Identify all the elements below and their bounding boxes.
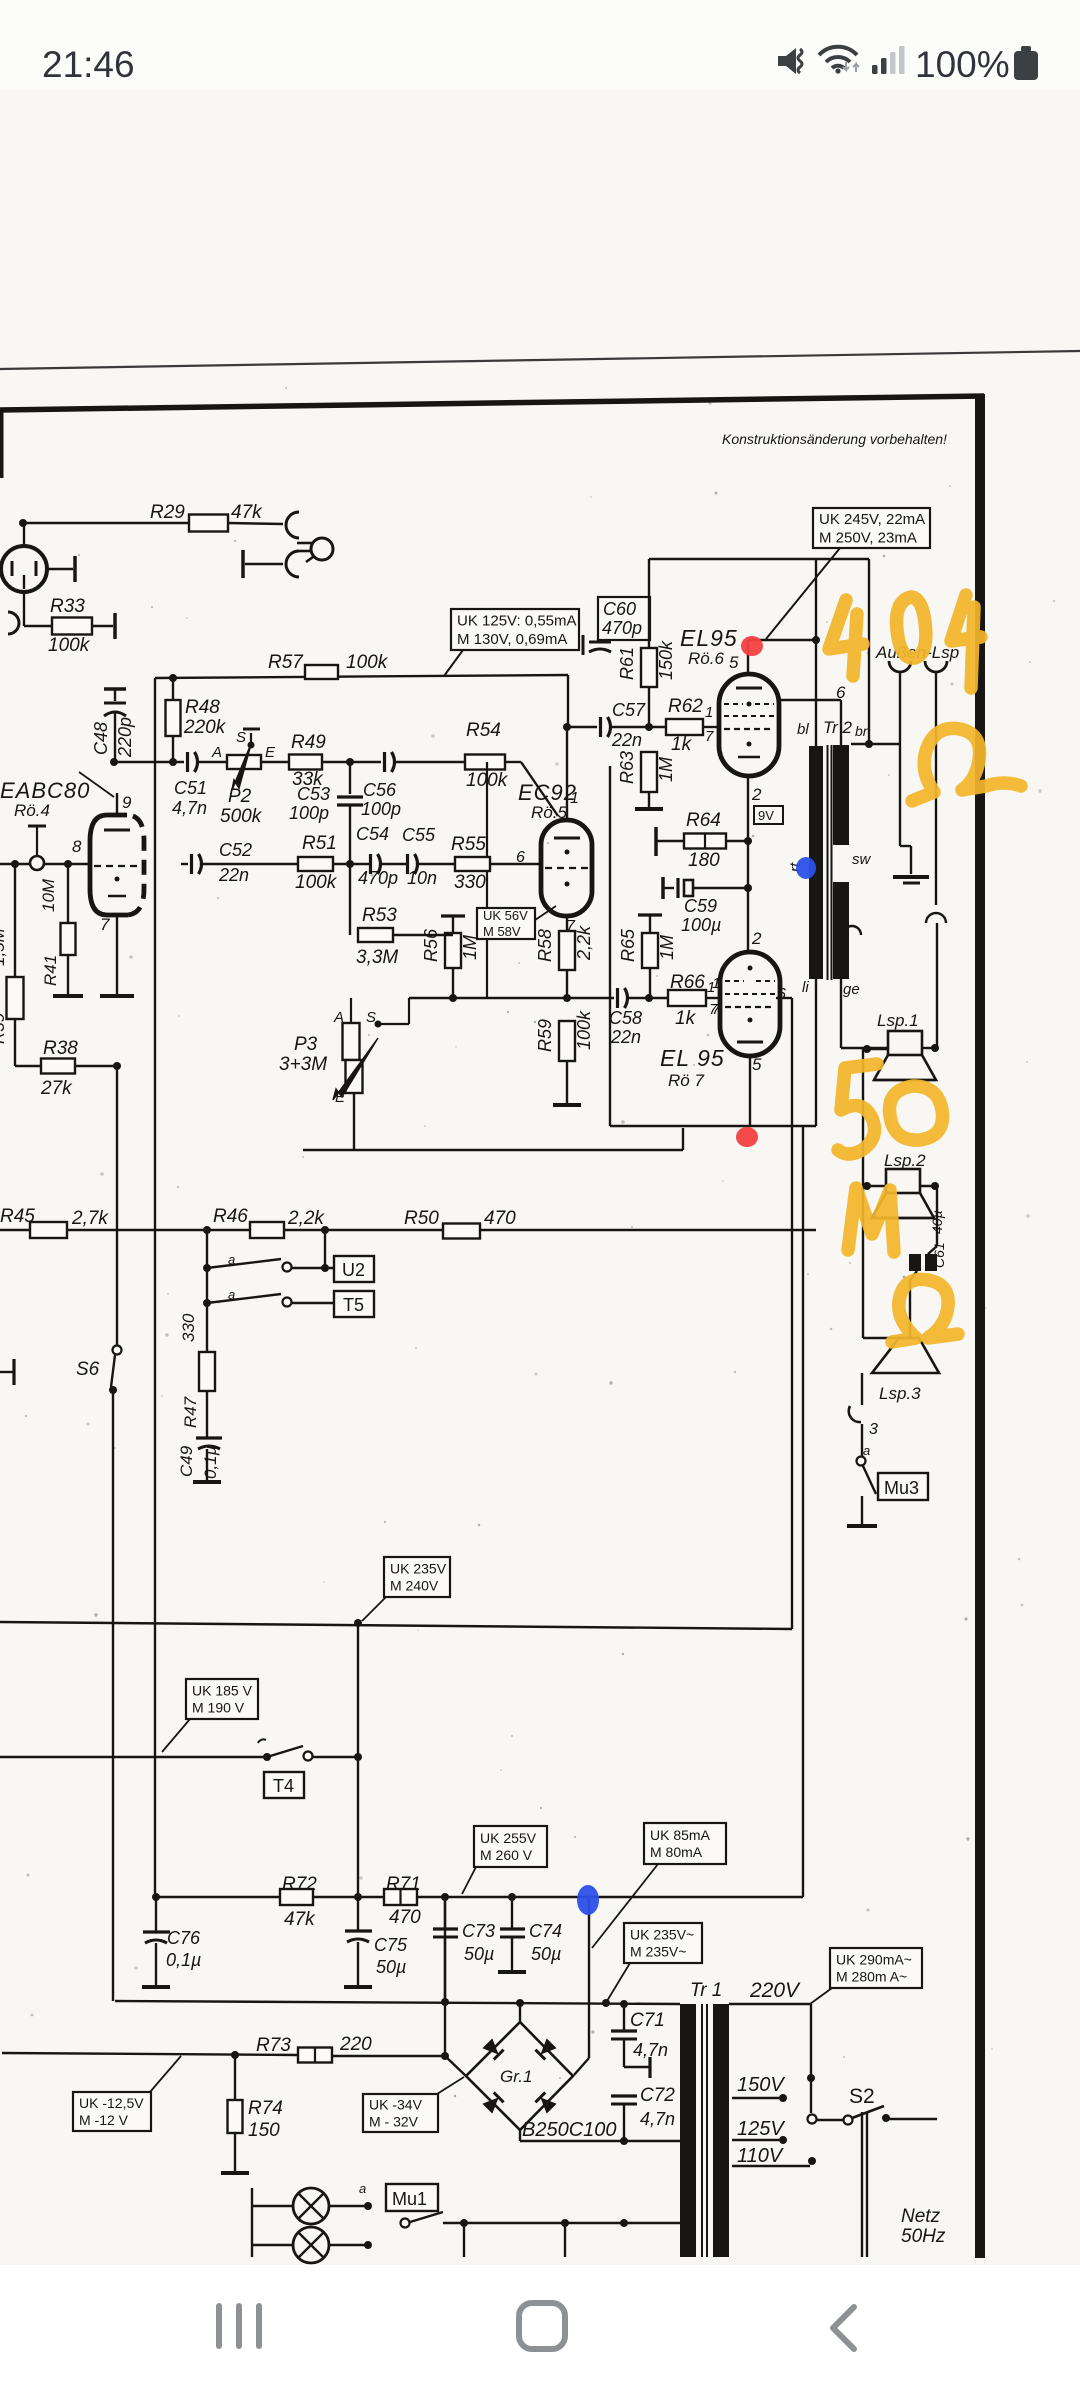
svg-text:C59: C59 [684,896,717,916]
triode V1 (top left tube) [1,546,47,592]
resistor R62 [666,719,703,735]
svg-text:Rö.6: Rö.6 [688,649,724,668]
svg-text:220k: 220k [183,717,227,738]
wire to R29 [23,522,189,525]
svg-text:7: 7 [705,728,714,745]
svg-text:R50: R50 [404,1208,439,1229]
resistor R39 [11,860,19,868]
capacitor C56 [383,752,386,772]
svg-text:100k: 100k [48,635,91,656]
EL95-1 internals [736,687,762,690]
svg-text:EL 95: EL 95 [660,1045,725,1071]
status bar wifi icon [819,47,857,74]
svg-text:M 190 V: M 190 V [192,1699,245,1715]
svg-text:UK 235V: UK 235V [390,1560,447,1576]
pointer UK255V [462,1867,476,1894]
svg-text:470p: 470p [602,618,642,638]
EABC80 internals [104,829,130,832]
svg-text:R64: R64 [686,810,721,831]
pin7 cathode bar [100,994,134,998]
wire top B+ rail [649,558,869,560]
svg-text:R39: R39 [0,1012,8,1044]
svg-text:R49: R49 [291,732,326,753]
svg-text:R71: R71 [386,1874,421,1895]
callout box UK235V M240V [384,1557,450,1597]
svg-text:7: 7 [712,1001,721,1018]
svg-text:C58: C58 [609,1008,642,1028]
svg-text:0,1µ: 0,1µ [166,1950,201,1970]
Mu3 ground [847,1524,877,1528]
svg-text:Konstruktionsänderung vorbehal: Konstruktionsänderung vorbehalten! [722,431,947,447]
pointer UK56V [535,906,556,920]
svg-text:UK 290mA~: UK 290mA~ [836,1951,912,1967]
svg-text:C53: C53 [297,784,330,804]
dial lamp 2 [252,2244,293,2246]
svg-text:3,3M: 3,3M [356,947,398,968]
svg-text:C49: C49 [177,1445,196,1477]
svg-text:S: S [366,1009,376,1026]
svg-text:C75: C75 [374,1935,408,1955]
wire loop arc [843,926,861,935]
svg-text:5: 5 [752,1055,762,1074]
box 9V [754,806,783,824]
tube EL95 Ro7 [720,952,780,1056]
callout box UK255V [474,1826,547,1867]
pointer UK125V to wire [444,650,463,676]
svg-text:50µ: 50µ [531,1944,561,1964]
svg-text:R33: R33 [50,596,85,617]
switch S6 [116,1066,118,1347]
transformer Tr2 primary winding [809,746,823,979]
svg-text:1,5M: 1,5M [0,927,8,966]
svg-text:150: 150 [248,2120,280,2141]
svg-text:C56: C56 [363,780,397,800]
tap 150V [732,2097,779,2099]
svg-text:B250C100: B250C100 [522,2119,617,2141]
R63 ground [635,807,663,811]
wire R62 to EL95 grid [703,726,719,728]
svg-text:Gr.1: Gr.1 [500,2067,532,2086]
resistor R50 [443,1224,480,1239]
capacitor C54 [369,854,372,874]
yellow handwriting M [848,1188,894,1252]
wire speaker feed drop [802,1126,804,1897]
pin8 top terminal [28,825,46,828]
R41 ground [53,994,83,998]
transformer Tr2 secondary upper [833,745,849,845]
transformer Tr2 secondary lower [833,882,849,979]
capacitor C58 [616,988,619,1008]
EL95-1 pin2 stem [747,776,749,952]
wire x589 drop [588,1897,590,2058]
capacitor C53 [349,762,351,794]
resistor R53 [349,864,351,935]
svg-text:P3: P3 [294,1034,318,1055]
svg-text:C54: C54 [356,824,389,844]
wire li drop [815,979,817,1126]
wire P2 to R49 [261,761,289,763]
svg-text:R53: R53 [362,905,397,926]
resistor R48 [172,678,174,700]
V1 anode stub [46,568,73,570]
callout box UK-12.5V [73,2092,151,2131]
resistor R47 [206,1303,208,1352]
C49 ground [193,1480,221,1484]
dial lamp 1 [252,2205,293,2207]
svg-text:C76: C76 [167,1928,201,1948]
wire EC92 anode riser [567,675,569,727]
wire NFB x487 [486,762,488,998]
sw center tap ground [899,672,901,846]
wire y2055 [2,2053,298,2055]
capacitor C61 40u [936,1186,938,1246]
svg-text:R56: R56 [421,928,441,962]
EL95-2 internals [737,1041,763,1044]
jack contact 3 [861,1373,863,1405]
svg-text:M 280m A~: M 280m A~ [836,1968,907,1984]
wire x358 drop [357,1623,359,1897]
svg-text:A: A [211,744,222,761]
capacitor C74 [511,1897,513,1929]
resistor R61 [648,559,650,648]
svg-text:10n: 10n [407,868,437,888]
pointer UK85mA [592,1864,658,1948]
wire C51 to P2 [197,761,227,763]
resistor R72 [280,1889,313,1905]
svg-text:E: E [335,1089,346,1106]
svg-text:3+3M: 3+3M [279,1054,327,1075]
yellow handwriting ohm 2 [892,1279,958,1342]
box T5 [334,1291,374,1317]
wire y1757 [0,1756,267,1758]
pointer UK290mA [810,1988,832,2004]
wire ge drop [840,979,842,1048]
capacitor C60 plates [582,635,585,655]
svg-text:50µ: 50µ [376,1957,406,1977]
svg-text:R59: R59 [535,1019,555,1052]
wire y2141 [520,2140,681,2142]
svg-text:330: 330 [454,872,486,893]
wire C52 line [181,863,188,865]
svg-text:R73: R73 [256,2035,291,2056]
svg-text:5: 5 [729,653,739,672]
svg-text:10M: 10M [39,878,58,912]
svg-text:S2: S2 [849,2085,875,2108]
pointer UK-12.5V [150,2056,181,2092]
svg-text:4,7n: 4,7n [640,2109,675,2129]
transformer Tr1 secondary winding [713,2004,729,2257]
svg-text:Mu3: Mu3 [884,1478,919,1498]
svg-text:EABC80: EABC80 [0,778,90,803]
wire R66 to EL95-2 [706,997,720,999]
svg-text:R55: R55 [451,834,486,855]
Tr2 core [827,745,829,980]
svg-text:220p: 220p [115,717,135,758]
svg-text:UK 85mA: UK 85mA [650,1827,711,1843]
wire R38 line [15,1065,117,1067]
svg-text:ge: ge [843,981,860,998]
svg-text:R74: R74 [248,2098,283,2119]
yellow handwriting ohm 1 [912,728,1021,801]
svg-text:22n: 22n [611,730,642,750]
long vertical rail x155 [154,678,156,1897]
svg-text:br: br [855,723,869,739]
blue marker dot 2 [577,1885,599,1915]
svg-text:sw: sw [852,851,872,868]
svg-text:40µ: 40µ [929,1210,945,1234]
svg-text:50µ: 50µ [464,1944,494,1964]
switch T4 [258,1739,266,1743]
svg-text:UK 235V~: UK 235V~ [630,1926,694,1942]
svg-text:C51: C51 [174,778,207,798]
status bar signal bars [872,65,878,74]
svg-text:180: 180 [688,850,720,871]
svg-text:1k: 1k [675,1008,697,1029]
resistor R65 [638,913,662,916]
svg-text:1k: 1k [671,734,693,755]
wire C55 to R55 [417,863,455,865]
wire R57 rail [155,675,568,678]
svg-text:C60: C60 [603,599,636,619]
svg-text:6: 6 [836,683,846,702]
speaker Lsp3 [872,1338,939,1373]
svg-text:R45: R45 [0,1206,35,1227]
svg-text:2: 2 [751,929,762,948]
nav recent apps [216,2303,222,2349]
jack contact arcs [286,512,299,538]
svg-text:M 130V, 0,69mA: M 130V, 0,69mA [457,631,567,648]
svg-text:li: li [802,979,809,996]
svg-text:M 235V~: M 235V~ [630,1943,686,1959]
svg-text:R58: R58 [535,929,555,962]
svg-text:50Hz: 50Hz [901,2226,946,2247]
resistor R73 [298,2048,332,2063]
wire grid line y998 [409,997,614,999]
speaker Lsp1 [888,1031,922,1055]
svg-text:EC92: EC92 [518,780,577,805]
wire rail y2002 [115,2001,680,2004]
svg-text:R51: R51 [302,833,337,854]
P3 bottom wire [353,1093,355,1150]
wire right socket drop [935,672,937,905]
svg-text:R41: R41 [41,955,60,986]
schematic frame left border stub [0,408,4,478]
svg-text:R61: R61 [617,647,637,680]
wire output stage bottom [610,1125,816,1127]
svg-text:R29: R29 [150,502,185,523]
wire C58 to R66 [627,997,668,999]
svg-text:R48: R48 [185,697,220,718]
svg-text:4,7n: 4,7n [172,798,207,818]
EL95-2 pin6 wire [776,997,792,999]
svg-text:UK 245V, 22mA: UK 245V, 22mA [819,511,925,528]
callout box UK235Vac [624,1923,702,1963]
box T4 [264,1772,304,1798]
EABC80 pin 7 stem [116,915,118,996]
svg-text:0,1µ: 0,1µ [201,1445,220,1479]
svg-text:M - 32V: M - 32V [369,2113,419,2129]
capacitor C55 [380,863,408,865]
svg-text:2,7k: 2,7k [71,1208,109,1229]
svg-text:UK 255V: UK 255V [480,1830,537,1846]
node main signal wire [114,761,184,763]
wire R51 node [333,863,371,865]
wire y2223 [443,2222,680,2224]
resistor R74 [234,2055,236,2100]
nav home [519,2303,565,2349]
svg-text:C71: C71 [630,2010,665,2031]
svg-text:M 250V, 23mA: M 250V, 23mA [819,529,917,546]
svg-text:9V: 9V [758,808,774,823]
callout box UK125V [451,609,579,650]
tap 125V [732,2139,779,2141]
wire R54 to EC92 grid [505,761,521,763]
red marker dot 2 [736,1127,758,1147]
svg-text:22n: 22n [218,865,249,885]
svg-text:UK -34V: UK -34V [369,2096,423,2112]
svg-text:Rö.4: Rö.4 [14,801,50,820]
capacitor C51 [186,752,189,772]
wire to bridge left [445,2056,466,2076]
speaker Lsp2 [886,1169,920,1193]
callout box UK245V [813,508,930,548]
wire 220V [729,2003,811,2005]
schematic frame top border [0,396,984,410]
svg-text:S: S [236,729,246,746]
svg-text:C52: C52 [219,840,252,860]
svg-text:Tr 2: Tr 2 [823,718,853,737]
svg-text:UK 185 V: UK 185 V [192,1682,253,1698]
svg-text:UK 56V: UK 56V [483,908,528,923]
svg-text:3: 3 [869,1421,878,1438]
svg-text:R57: R57 [268,652,304,673]
blue marker dot 1 [796,857,816,879]
R74 ground [221,2171,249,2175]
bridge rectifier Gr1 [466,2022,573,2130]
resistor R59 [559,1021,575,1061]
svg-text:R38: R38 [43,1038,78,1059]
svg-text:S6: S6 [76,1359,100,1380]
resistor R29 [189,515,228,532]
Gr1 stems [519,2003,521,2022]
resistor R45 [30,1222,67,1238]
wire B+ right drop [868,559,870,744]
svg-text:125V: 125V [737,2118,785,2140]
svg-text:U2: U2 [342,1260,365,1280]
svg-text:6: 6 [516,849,525,866]
tap 110V [732,2165,810,2167]
svg-text:8: 8 [72,837,82,856]
wire br riser [840,700,842,745]
nav back [833,2307,854,2349]
svg-text:2: 2 [751,785,762,804]
callout box UK-34V [363,2094,438,2132]
resistor R38 [41,1059,75,1074]
svg-text:R62: R62 [668,696,703,717]
wire rail y1897 [156,1896,803,1898]
svg-text:a: a [863,1443,870,1458]
svg-text:T4: T4 [273,1776,294,1796]
wire R49 to C56 [322,761,381,763]
resistor R56 [441,914,465,917]
EC92 internals [554,837,580,840]
wire x445 [444,1897,446,2056]
svg-text:R47: R47 [181,1396,200,1428]
resistor R63 [641,752,657,792]
svg-text:47k: 47k [284,1909,316,1930]
svg-text:bl: bl [797,721,809,738]
box Mu1 [386,2184,438,2211]
capacitor C73 [444,1897,446,1929]
svg-text:E: E [265,744,276,761]
pointer UK235Vac [607,1963,630,2001]
svg-text:7: 7 [100,915,110,934]
status bar mute icon [778,48,802,74]
wire C57 line [563,723,571,731]
svg-text:220: 220 [339,2034,372,2055]
potentiometer P2 [227,755,261,769]
svg-text:470: 470 [484,1208,516,1229]
status bar battery icon [1014,51,1038,80]
svg-text:100p: 100p [289,803,329,823]
svg-text:M -12 V: M -12 V [79,2112,129,2128]
svg-text:M 80mA: M 80mA [650,1844,703,1860]
jack terminal bar [241,550,245,578]
svg-text:R63: R63 [617,751,637,784]
pointer UK245V to EL95 anode [766,548,840,639]
resistor R71 [384,1889,417,1905]
resistor R51 [298,857,333,871]
plug symbol [311,538,333,560]
svg-text:UK -12,5V: UK -12,5V [79,2095,144,2111]
Tr1 core [701,2004,703,2257]
box C60 [598,597,650,640]
svg-text:9: 9 [122,793,132,812]
EABC80 pin 8 wire [0,863,30,865]
switch network U2 [206,1230,208,1303]
svg-text:a: a [359,2181,366,2196]
svg-text:1M: 1M [657,935,677,960]
resistor R57 [305,665,338,679]
capacitor C76 [155,1897,157,1932]
wire C56 to R54 [394,761,465,763]
svg-text:150k: 150k [656,640,676,680]
box Mu3 [878,1473,928,1500]
svg-text:470: 470 [389,1907,421,1928]
resistor R54 [465,755,505,770]
svg-text:100k: 100k [574,1010,594,1050]
svg-text:470p: 470p [358,868,398,888]
svg-text:C74: C74 [529,1921,562,1941]
svg-text:Mu1: Mu1 [392,2189,427,2209]
svg-text:22n: 22n [610,1027,641,1047]
svg-text:R65: R65 [618,928,638,962]
resistor R33 [52,618,92,635]
lamp chain bus [251,2188,253,2257]
capacitor C52 [190,854,193,874]
svg-text:M 240V: M 240V [390,1577,439,1593]
svg-text:100k: 100k [346,652,389,673]
svg-text:100k: 100k [295,872,338,893]
svg-text:R54: R54 [466,720,501,741]
resistor R66 [668,990,706,1006]
svg-text:100p: 100p [361,799,401,819]
wire C52 to R51 [201,863,298,865]
capacitor C49 [196,1436,222,1439]
wire bl riser [815,559,817,746]
pin6 drop wire [791,998,793,1629]
callout box UK56V [477,908,535,939]
